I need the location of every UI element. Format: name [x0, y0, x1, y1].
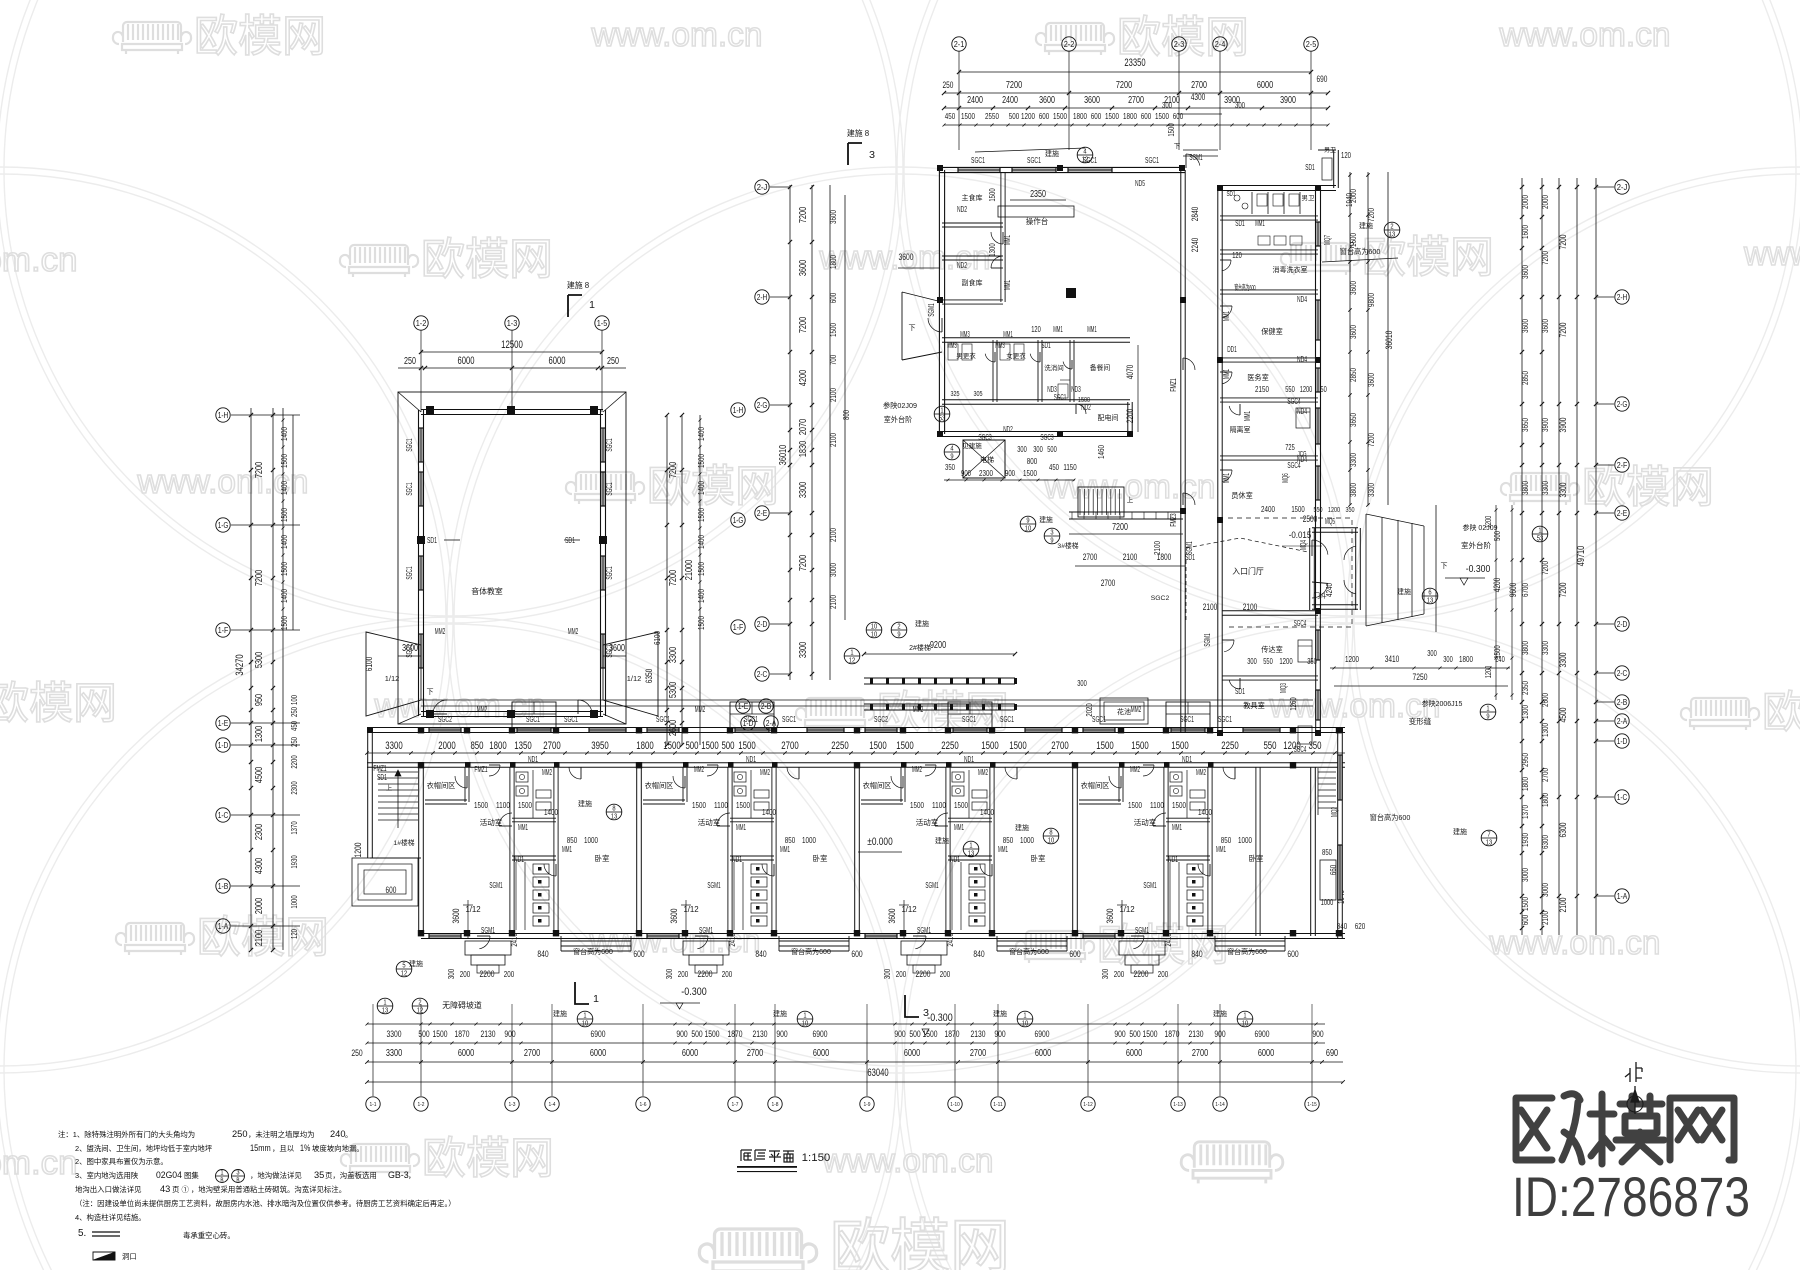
music room corner hips	[398, 392, 421, 412]
svg-text:3300: 3300	[798, 642, 809, 659]
svg-text:MM1: MM1	[518, 822, 528, 832]
svg-text:（注：因建设单位尚未提供厨房工艺资料，故厨房内水池、排水暗沟: （注：因建设单位尚未提供厨房工艺资料，故厨房内水池、排水暗沟及位置仅供参考。待厨…	[75, 1199, 456, 1208]
svg-text:2250: 2250	[941, 740, 958, 752]
svg-text:MM2: MM2	[760, 767, 770, 777]
svg-text:1:150: 1:150	[802, 1152, 831, 1164]
svg-text:MM1: MM1	[1002, 280, 1012, 290]
svg-text:SGC1: SGC1	[1180, 714, 1194, 724]
svg-text:1500: 1500	[896, 740, 913, 752]
svg-text:1300: 1300	[1520, 705, 1530, 719]
svg-text:保健室: 保健室	[1261, 327, 1283, 336]
svg-text:室外台阶: 室外台阶	[884, 415, 913, 424]
svg-text:2250: 2250	[831, 740, 848, 752]
svg-text:3#楼梯: 3#楼梯	[1057, 541, 1078, 550]
svg-text:6000: 6000	[1258, 1048, 1275, 1059]
svg-text:2550: 2550	[985, 111, 999, 121]
svg-text:SGC1: SGC1	[1054, 393, 1067, 402]
svg-text:1800: 1800	[636, 740, 653, 752]
svg-text:2200: 2200	[289, 755, 299, 769]
svg-text:1500: 1500	[696, 562, 706, 576]
svg-text:13: 13	[968, 848, 975, 857]
svg-text:SGM1: SGM1	[1143, 880, 1157, 890]
svg-text:350: 350	[1345, 505, 1354, 514]
svg-text:SGM1: SGM1	[925, 880, 939, 890]
svg-text:MQ4: MQ4	[1298, 540, 1308, 550]
svg-text:1000: 1000	[1020, 835, 1034, 845]
svg-text:725: 725	[1285, 443, 1295, 452]
svg-text:建施 8: 建施 8	[567, 280, 590, 290]
svg-text:1500: 1500	[1520, 897, 1530, 911]
svg-text:2#楼梯: 2#楼梯	[909, 643, 931, 652]
svg-text:2700: 2700	[1191, 80, 1207, 91]
svg-text:1260: 1260	[1288, 697, 1298, 711]
bottom axis stubs	[372, 1004, 374, 1024]
svg-text:SGC2: SGC2	[1151, 595, 1170, 602]
svg-text:900: 900	[961, 468, 971, 478]
svg-text:12500: 12500	[501, 339, 523, 351]
svg-text:SD1: SD1	[427, 535, 437, 545]
svg-text:840: 840	[1337, 921, 1348, 931]
svg-text:，: ，	[408, 1171, 415, 1180]
svg-text:2100: 2100	[1243, 602, 1258, 612]
svg-text:3600: 3600	[886, 909, 897, 924]
svg-text:450: 450	[289, 721, 299, 731]
svg-text:1/12: 1/12	[1119, 905, 1134, 914]
svg-text:1-9: 1-9	[863, 1102, 870, 1108]
changing room fixtures	[948, 344, 958, 360]
svg-text:ND1: ND1	[528, 754, 538, 764]
svg-text:3600: 3600	[668, 909, 679, 924]
svg-text:ND1: ND1	[1168, 854, 1178, 864]
svg-text:200: 200	[1114, 969, 1125, 979]
svg-text:地沟出入口做法详见: 地沟出入口做法详见	[75, 1185, 142, 1194]
svg-text:MM1: MM1	[1221, 311, 1231, 321]
svg-text:1500: 1500	[1128, 800, 1142, 810]
svg-text:6700: 6700	[1520, 583, 1530, 597]
svg-text:1500: 1500	[1131, 740, 1148, 752]
svg-text:MM2: MM2	[978, 767, 988, 777]
svg-text:SD1: SD1	[1305, 163, 1315, 172]
svg-text:2200: 2200	[480, 968, 495, 979]
svg-text:600: 600	[1039, 111, 1050, 121]
svg-text:SGC2: SGC2	[438, 714, 452, 724]
svg-text:om.cn: om.cn	[0, 1144, 78, 1182]
bottom axis bubbles	[372, 1024, 374, 1096]
svg-text:衣帽间区: 衣帽间区	[427, 781, 456, 790]
svg-text:2-D: 2-D	[757, 619, 768, 629]
svg-text:600: 600	[386, 885, 397, 895]
svg-text:5300: 5300	[668, 682, 679, 699]
svg-text:下: 下	[427, 688, 434, 696]
svg-text:1-15: 1-15	[1307, 1102, 1316, 1108]
svg-text:2-D: 2-D	[1617, 619, 1628, 629]
svg-text:MM1: MM1	[1003, 330, 1013, 339]
svg-text:上: 上	[386, 783, 393, 792]
svg-text:2600: 2600	[668, 720, 679, 737]
svg-text:200: 200	[504, 969, 515, 979]
svg-text:1-E: 1-E	[738, 701, 749, 711]
peidian room	[1127, 402, 1129, 436]
svg-text:550: 550	[1263, 740, 1276, 752]
svg-text:1-10: 1-10	[950, 1102, 959, 1108]
svg-text:1-E: 1-E	[218, 718, 229, 728]
svg-text:36010: 36010	[778, 445, 789, 466]
svg-text:2-4: 2-4	[1215, 39, 1226, 49]
xiuxi room	[1220, 455, 1318, 457]
svg-text:1/12: 1/12	[901, 905, 916, 914]
svg-text:300: 300	[1033, 445, 1043, 454]
svg-text:页，沟盖板选用: 页，沟盖板选用	[325, 1171, 377, 1180]
svg-text:1500: 1500	[738, 740, 755, 752]
svg-text:ND2: ND2	[957, 204, 967, 214]
svg-text:3: 3	[923, 1008, 929, 1019]
svg-text:250: 250	[351, 1047, 362, 1058]
svg-text:660: 660	[1328, 865, 1338, 876]
kitchen interior: storerooms west	[1000, 172, 1002, 302]
svg-text:建施: 建施	[993, 1009, 1007, 1018]
columns along corridor wall of band	[465, 762, 471, 768]
svg-text:2700: 2700	[1083, 552, 1098, 562]
svg-text:3、室内地沟选用陕: 3、室内地沟选用陕	[75, 1171, 139, 1180]
svg-text:MM3: MM3	[947, 341, 957, 350]
svg-text:10: 10	[1242, 1018, 1249, 1027]
svg-text:ID:2786873: ID:2786873	[1512, 1165, 1750, 1228]
svg-text:2100: 2100	[828, 595, 838, 609]
svg-text:MM2: MM2	[1131, 704, 1141, 714]
svg-text:2300: 2300	[979, 468, 993, 478]
svg-text:1-2: 1-2	[417, 1102, 424, 1108]
svg-text:12: 12	[849, 655, 856, 664]
svg-text:6300: 6300	[1540, 835, 1550, 849]
svg-text:200: 200	[896, 969, 907, 979]
svg-text:配电间: 配电间	[1098, 413, 1119, 422]
svg-text:欧模网: 欧模网	[194, 12, 326, 61]
corridor tick line	[367, 752, 1345, 754]
svg-text:JCG: JCG	[1297, 449, 1306, 458]
svg-text:2-C: 2-C	[757, 669, 768, 679]
svg-text:1500: 1500	[433, 1028, 448, 1039]
svg-text:窗台高为600: 窗台高为600	[1340, 247, 1381, 256]
svg-text:2700: 2700	[543, 740, 560, 752]
walkway below kitchen	[1069, 511, 1183, 513]
svg-text:3600: 3600	[1039, 95, 1055, 106]
svg-text:250: 250	[943, 80, 954, 90]
svg-text:3300: 3300	[1540, 641, 1550, 655]
svg-text:1-F: 1-F	[218, 625, 229, 635]
svg-text:1/12: 1/12	[683, 905, 698, 914]
svg-text:见建施: 见建施	[962, 441, 982, 450]
svg-text:1-B: 1-B	[218, 881, 229, 891]
svg-text:840: 840	[755, 948, 766, 959]
svg-text:1400: 1400	[279, 427, 289, 441]
svg-text:1500: 1500	[1009, 740, 1026, 752]
svg-text:，地沟做法详见: ，地沟做法详见	[250, 1171, 302, 1180]
svg-text:副食库: 副食库	[962, 278, 983, 287]
svg-text:1370: 1370	[289, 821, 299, 835]
svg-text:SGC2: SGC2	[874, 714, 888, 724]
svg-text:7200: 7200	[1112, 522, 1128, 533]
north gable porches at unit joints	[512, 702, 556, 728]
svg-text:3600: 3600	[1084, 95, 1100, 106]
svg-text:MM1: MM1	[1002, 235, 1012, 245]
svg-text:SGM1: SGM1	[1202, 633, 1212, 647]
svg-text:1400: 1400	[279, 481, 289, 495]
svg-text:450: 450	[1049, 462, 1059, 472]
svg-text:1100: 1100	[714, 800, 728, 810]
svg-text:3900: 3900	[1540, 418, 1550, 432]
svg-text:1350: 1350	[514, 740, 531, 752]
svg-text:1200: 1200	[1484, 515, 1493, 528]
svg-text:2200: 2200	[1125, 409, 1135, 424]
svg-text:1#楼梯: 1#楼梯	[393, 838, 414, 847]
walkway bubbles	[866, 622, 882, 638]
svg-text:9: 9	[897, 629, 900, 638]
svg-text:卧室: 卧室	[813, 853, 828, 863]
svg-text:620: 620	[1355, 921, 1366, 931]
svg-text:1870: 1870	[455, 1028, 470, 1039]
svg-text:ND1: ND1	[964, 754, 974, 764]
svg-text:窗台高为600: 窗台高为600	[1370, 813, 1411, 822]
svg-text:6000: 6000	[1257, 80, 1274, 91]
svg-text:600: 600	[1173, 111, 1184, 121]
svg-text:1500: 1500	[692, 800, 706, 810]
music room west porch	[366, 632, 421, 716]
dashed terrace outline near entry	[1228, 518, 1352, 627]
svg-text:1500: 1500	[279, 616, 289, 630]
structural columns kitchen	[937, 165, 943, 171]
svg-text:2000: 2000	[438, 740, 455, 752]
svg-text:7200: 7200	[1557, 235, 1568, 250]
svg-text:1500: 1500	[518, 800, 532, 810]
svg-text:SGC1: SGC1	[604, 482, 614, 496]
svg-text:6900: 6900	[813, 1028, 828, 1039]
svg-text:7200: 7200	[1540, 251, 1550, 265]
svg-text:6000: 6000	[904, 1048, 921, 1059]
svg-text:9800: 9800	[1366, 293, 1376, 307]
mid bubble pairs	[755, 180, 769, 194]
svg-text:100: 100	[289, 695, 299, 705]
toilet fixtures	[516, 772, 528, 782]
svg-text:消毒洗衣室: 消毒洗衣室	[1273, 265, 1308, 274]
left chain ticks and numbers	[249, 413, 253, 417]
svg-text:3000: 3000	[828, 563, 838, 577]
svg-text:3300: 3300	[386, 1048, 403, 1059]
svg-text:SGC1: SGC1	[404, 482, 414, 496]
svg-text:欧模网: 欧模网	[0, 679, 117, 728]
svg-text:ND2: ND2	[957, 260, 967, 270]
music room columns	[426, 406, 434, 414]
svg-text:员休室: 员休室	[1231, 491, 1253, 500]
mid-right chain	[1349, 172, 1351, 505]
svg-text:3600: 3600	[1348, 281, 1358, 295]
svg-text:3000: 3000	[1540, 883, 1550, 897]
svg-text:4070: 4070	[1125, 365, 1135, 380]
svg-text:2130: 2130	[753, 1028, 768, 1039]
svg-text:1800: 1800	[1520, 777, 1530, 791]
svg-text:1-13: 1-13	[1173, 1102, 1182, 1108]
svg-text:7200: 7200	[1557, 323, 1568, 338]
svg-text:13: 13	[1427, 595, 1434, 604]
svg-text:门斗: 门斗	[1313, 591, 1327, 600]
svg-text:850: 850	[567, 835, 578, 845]
svg-text:21000: 21000	[684, 560, 695, 581]
svg-text:SGC1: SGC1	[962, 714, 976, 724]
svg-text:下: 下	[909, 324, 916, 332]
svg-text:900: 900	[1312, 1028, 1323, 1039]
svg-text:电梯: 电梯	[980, 455, 994, 464]
svg-text:2700: 2700	[1101, 578, 1116, 588]
svg-text:1500: 1500	[701, 740, 718, 752]
svg-text:600: 600	[1520, 915, 1530, 926]
svg-text:2、图中家具布置仅为示意。: 2、图中家具布置仅为示意。	[75, 1157, 168, 1166]
svg-text:SGM1: SGM1	[926, 303, 936, 317]
svg-text:1400: 1400	[696, 535, 706, 549]
svg-text:1500: 1500	[736, 800, 750, 810]
svg-text:音体教室: 音体教室	[471, 586, 503, 596]
svg-text:MM1: MM1	[1216, 844, 1226, 854]
svg-text:3300: 3300	[668, 647, 679, 664]
svg-text:1500: 1500	[828, 323, 838, 337]
svg-text:9600: 9600	[1508, 583, 1518, 598]
svg-text:1: 1	[593, 994, 599, 1005]
svg-text:隔离室: 隔离室	[1230, 425, 1251, 434]
svg-text:1-11: 1-11	[993, 1102, 1002, 1108]
svg-text:12: 12	[401, 968, 408, 977]
svg-text:2850: 2850	[1348, 368, 1358, 382]
svg-text:10: 10	[1048, 835, 1055, 844]
svg-text:SGC1: SGC1	[1027, 155, 1041, 165]
svg-text:2100: 2100	[1557, 898, 1568, 913]
svg-text:2200: 2200	[1134, 968, 1149, 979]
svg-text:ND1: ND1	[732, 854, 742, 864]
music room MM2 doors	[433, 700, 447, 714]
svg-text:SGC1: SGC1	[526, 714, 540, 724]
svg-text:1-3: 1-3	[508, 1102, 515, 1108]
svg-text:4500: 4500	[254, 767, 265, 784]
svg-text:3800: 3800	[1520, 641, 1530, 655]
svg-text:3300: 3300	[798, 482, 809, 499]
svg-text:300: 300	[1247, 657, 1257, 666]
svg-text:2-A: 2-A	[1617, 716, 1628, 726]
svg-text:23350: 23350	[1124, 57, 1145, 69]
svg-text:7250: 7250	[1413, 671, 1428, 682]
svg-text:SGM1: SGM1	[699, 925, 713, 935]
svg-text:1500: 1500	[1105, 111, 1119, 121]
svg-text:300: 300	[446, 969, 456, 980]
svg-text:1500: 1500	[474, 800, 488, 810]
svg-text:2-H: 2-H	[757, 292, 768, 302]
svg-text:600: 600	[1141, 111, 1152, 121]
svg-text:3650: 3650	[1348, 413, 1358, 427]
sw exterior steps	[352, 858, 418, 906]
svg-text:1500: 1500	[279, 508, 289, 522]
svg-text:1500: 1500	[923, 1028, 938, 1039]
svg-text:2300: 2300	[254, 824, 265, 841]
svg-text:MM1: MM1	[1242, 411, 1252, 421]
svg-text:13: 13	[1389, 229, 1396, 238]
svg-text:SGC1: SGC1	[404, 566, 414, 580]
music room walls	[418, 410, 420, 716]
svg-text:洗消间: 洗消间	[1044, 363, 1064, 372]
svg-text:MM2: MM2	[1196, 767, 1206, 777]
svg-text:3600: 3600	[1520, 265, 1530, 279]
svg-text:1/12: 1/12	[627, 674, 642, 683]
svg-text:2950: 2950	[1520, 753, 1530, 767]
svg-text:6900: 6900	[591, 1028, 606, 1039]
svg-text:1600: 1600	[1520, 225, 1530, 239]
svg-text:室外台阶: 室外台阶	[1461, 540, 1491, 550]
svg-text:2-A: 2-A	[766, 718, 777, 728]
svg-text:3650: 3650	[1520, 418, 1530, 432]
svg-text:2000: 2000	[1348, 189, 1358, 203]
svg-text:2700: 2700	[1192, 1048, 1209, 1059]
svg-text:1870: 1870	[1165, 1028, 1180, 1039]
svg-text:2130: 2130	[971, 1028, 986, 1039]
svg-text:900: 900	[1005, 468, 1015, 478]
svg-text:1800: 1800	[1459, 654, 1473, 664]
left chain vertical lines	[250, 408, 252, 950]
svg-text:1-D: 1-D	[218, 740, 229, 750]
svg-text:850: 850	[1322, 847, 1332, 857]
svg-text:1000: 1000	[584, 835, 598, 845]
svg-text:MM1: MM1	[562, 844, 572, 854]
north windows in band wall	[429, 728, 461, 732]
svg-text:MM1: MM1	[1221, 369, 1231, 379]
svg-text:建施: 建施	[1453, 827, 1467, 836]
svg-text:SGC1: SGC1	[564, 714, 578, 724]
svg-text:350: 350	[945, 462, 955, 472]
yiwu room	[1220, 357, 1318, 359]
svg-text:B: B	[236, 1175, 239, 1184]
svg-text:ND1: ND1	[514, 854, 524, 864]
svg-text:MM2: MM2	[477, 704, 487, 714]
svg-text:建施: 建施	[553, 1009, 567, 1018]
svg-text:1-14: 1-14	[1215, 1102, 1224, 1108]
svg-text:2700: 2700	[1540, 768, 1550, 782]
svg-text:1800: 1800	[1540, 793, 1550, 807]
svg-text:www.om.cn: www.om.cn	[591, 16, 763, 54]
svg-text:300: 300	[1443, 655, 1453, 664]
door dou (vestibule)	[1309, 528, 1311, 610]
svg-text:2700: 2700	[970, 1048, 987, 1059]
svg-text:450: 450	[945, 111, 956, 121]
svg-text:1-4: 1-4	[548, 1102, 555, 1108]
structural columns band	[418, 727, 424, 733]
svg-text:建施: 建施	[578, 799, 592, 808]
svg-text:4300: 4300	[254, 858, 265, 875]
washroom row	[1220, 249, 1318, 251]
svg-text:2-C: 2-C	[1617, 668, 1628, 678]
svg-text:2300: 2300	[289, 781, 299, 795]
corridor top door	[1186, 154, 1200, 166]
band east wall	[1337, 727, 1339, 938]
svg-text:ND4: ND4	[1297, 354, 1307, 364]
svg-text:34270: 34270	[234, 654, 246, 675]
leader lines from mid bubbles	[770, 186, 790, 188]
svg-text:550: 550	[1285, 385, 1295, 394]
elevator	[963, 440, 1005, 478]
svg-text:1500: 1500	[910, 800, 924, 810]
svg-text:1-C: 1-C	[218, 810, 229, 820]
svg-text:操作台: 操作台	[1026, 216, 1049, 226]
svg-text:窗台高为600: 窗台高为600	[1009, 947, 1049, 956]
svg-text:1200: 1200	[352, 843, 363, 858]
svg-text:2400: 2400	[1261, 504, 1275, 514]
svg-text:120: 120	[1031, 325, 1041, 334]
svg-text:240: 240	[330, 1128, 346, 1139]
svg-text:3300: 3300	[1557, 483, 1568, 498]
svg-text:1800: 1800	[489, 740, 506, 752]
